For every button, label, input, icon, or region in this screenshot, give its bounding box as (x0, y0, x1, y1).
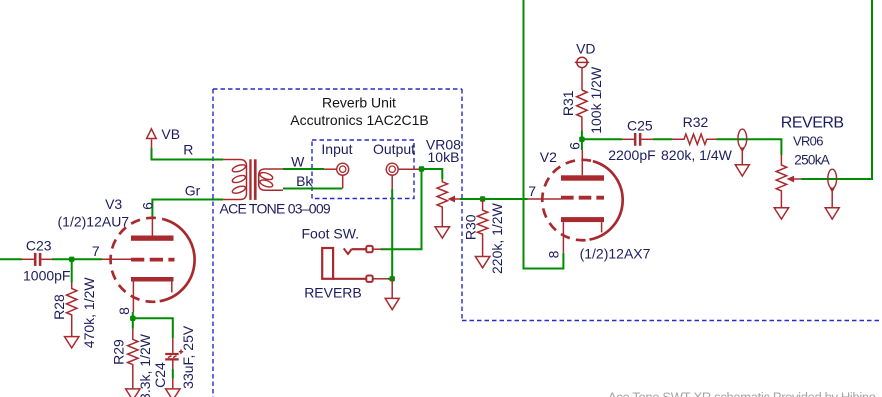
svg-text:VR06: VR06 (793, 134, 823, 149)
svg-text:R29: R29 (110, 339, 126, 365)
svg-text:(1/2)12AU7: (1/2)12AU7 (58, 214, 130, 230)
svg-text:7: 7 (528, 183, 536, 199)
svg-text:Accutronics 1AC2C1B: Accutronics 1AC2C1B (290, 112, 429, 128)
svg-text:REVERB: REVERB (304, 285, 362, 301)
svg-text:W: W (291, 154, 305, 170)
svg-text:R31: R31 (560, 90, 576, 116)
svg-text:Gr: Gr (185, 183, 201, 199)
svg-text:Output: Output (373, 141, 415, 157)
svg-text:R30: R30 (463, 214, 479, 240)
svg-text:VB: VB (161, 126, 180, 142)
svg-text:Input: Input (321, 141, 352, 157)
svg-text:C23: C23 (26, 237, 52, 253)
svg-text:10kB: 10kB (428, 149, 460, 165)
svg-text:3.3k, 1/2W: 3.3k, 1/2W (137, 333, 153, 397)
svg-text:33uF, 25V: 33uF, 25V (180, 325, 196, 389)
svg-text:470k, 1/2W: 470k, 1/2W (81, 277, 97, 349)
svg-text:V2: V2 (540, 149, 557, 165)
svg-text:(1/2)12AX7: (1/2)12AX7 (580, 246, 651, 262)
svg-text:2200pF: 2200pF (608, 147, 655, 163)
svg-text:Ace Tone SWT-XR schematic Prov: Ace Tone SWT-XR schematic Provided by Hi… (608, 390, 876, 397)
svg-text:6: 6 (567, 142, 583, 150)
svg-text:Reverb Unit: Reverb Unit (322, 95, 396, 111)
svg-text:220k, 1/2W: 220k, 1/2W (489, 202, 505, 274)
svg-text:R: R (183, 142, 193, 158)
svg-text:1000pF: 1000pF (23, 268, 70, 284)
svg-text:R32: R32 (683, 114, 709, 130)
svg-text:REVERB: REVERB (781, 114, 844, 131)
svg-text:VD: VD (576, 41, 595, 57)
svg-text:100k 1/2W: 100k 1/2W (588, 66, 604, 134)
svg-text:820k, 1/4W: 820k, 1/4W (661, 147, 733, 163)
svg-text:7: 7 (92, 243, 100, 259)
svg-text:C24: C24 (152, 362, 168, 388)
svg-text:8: 8 (546, 250, 562, 258)
svg-text:250kA: 250kA (794, 153, 829, 168)
svg-text:Bk: Bk (296, 173, 313, 189)
svg-text:V3: V3 (105, 196, 122, 212)
svg-text:8: 8 (116, 307, 132, 315)
svg-text:R28: R28 (51, 294, 67, 320)
svg-text:6: 6 (139, 202, 155, 210)
svg-text:Foot SW.: Foot SW. (302, 226, 360, 242)
svg-text:C25: C25 (627, 118, 653, 134)
svg-text:ACE TONE 03–009: ACE TONE 03–009 (220, 201, 331, 217)
